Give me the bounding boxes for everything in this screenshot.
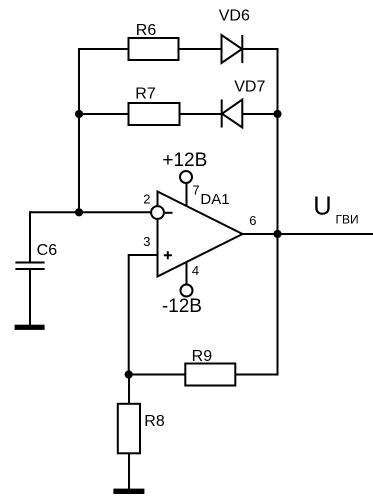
svg-text:C6: C6 (37, 242, 58, 259)
svg-text:6: 6 (249, 213, 256, 228)
svg-text:R6: R6 (136, 22, 157, 39)
svg-text:U: U (313, 192, 331, 220)
svg-text:-12B: -12B (162, 296, 202, 317)
svg-text:2: 2 (143, 191, 150, 206)
svg-text:R9: R9 (192, 348, 213, 365)
svg-text:4: 4 (192, 263, 199, 278)
svg-text:+12B: +12B (162, 150, 207, 171)
svg-text:VD7: VD7 (234, 79, 265, 96)
svg-text:3: 3 (143, 234, 150, 249)
svg-text:7: 7 (192, 183, 199, 198)
svg-text:DA1: DA1 (200, 191, 229, 208)
svg-text:VD6: VD6 (219, 7, 250, 24)
svg-text:R7: R7 (135, 86, 156, 103)
svg-text:ГВИ: ГВИ (336, 212, 359, 226)
svg-text:R8: R8 (144, 413, 165, 430)
